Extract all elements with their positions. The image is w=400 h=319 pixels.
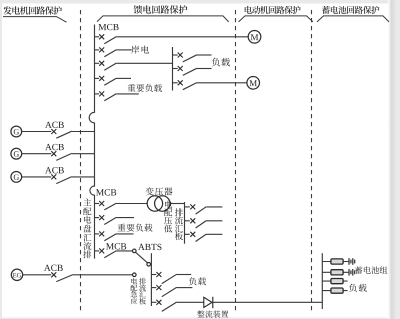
breaker ACB contact (x) G1 (51, 129, 56, 134)
battery bus (vertical) (321, 253, 323, 309)
section title: 电动机回路保护 (245, 6, 301, 14)
fuse on battery branch 2 (331, 270, 343, 275)
wire of emergency load branch 2 (177, 287, 193, 289)
label MCB (transformer feeder) (96, 189, 116, 195)
breaker MCB on feeder branch to motor M1 (94, 34, 116, 43)
breaker contact (x) (99, 215, 104, 220)
wire EG to breaker (23, 274, 51, 276)
wire stub (185, 233, 190, 235)
wire stub (94, 203, 99, 205)
label ACB (generator G2) (45, 144, 64, 150)
wire stub (173, 82, 178, 84)
wire stub of battery load branch 1 (322, 280, 347, 282)
breaker contact (x) (156, 285, 161, 290)
section title: 发电机回路保护 (3, 6, 62, 14)
breaker contact (x) (178, 80, 183, 85)
wire stub (94, 77, 99, 79)
section divider dashed line 2 (235, 10, 237, 313)
bus label: 应急配电板汇流排 (two columns, bottom-to-top) (131, 278, 146, 305)
breaker on emergency load branch 2 (151, 285, 176, 297)
wire of feeder branch (116, 77, 131, 79)
wire stub (185, 220, 190, 222)
label 负载 (emergency) (189, 277, 206, 285)
main switchboard bus (vertical, with two drawout bumps) (89, 25, 94, 259)
wire generator G3 to breaker (22, 176, 52, 178)
fuse on battery branch 1 (331, 259, 343, 264)
rectifier diode D1 (204, 297, 213, 308)
breaker blade (104, 203, 116, 210)
breaker on LV bus branch 3 (185, 232, 207, 242)
battery cells on battery branch 1 (349, 258, 355, 265)
label ABTS (138, 244, 161, 250)
label 蓄电池组 (355, 266, 387, 274)
low-voltage distribution bus (vertical) (184, 202, 186, 244)
wire transformer to LV bus (170, 203, 185, 205)
label 整流装置 (197, 310, 228, 317)
breaker MCB on feeder branch 岸电 (shore power) (94, 47, 116, 56)
breaker blade (162, 287, 177, 296)
wire of sub-bus load branch 1 (197, 54, 212, 56)
label 重要负载 (feeder) (128, 84, 162, 92)
label ACB (generator G1) (45, 122, 64, 128)
breaker contact (x) (190, 232, 195, 237)
wire stub of battery branch 2 (322, 271, 348, 273)
wire breaker to main bus G3 (72, 176, 94, 178)
breaker on important-load branch (middle) (94, 215, 116, 224)
breaker MCB on transformer branch (94, 201, 116, 210)
breaker MCB on feeder branch to distribution sub-bus (94, 61, 116, 70)
breaker MCB on feeder branch (94, 76, 116, 85)
wire stub of battery load branch 2 (322, 290, 347, 292)
breaker on sub-bus load branch 2 (173, 66, 197, 75)
breaker blade (104, 37, 116, 44)
wire of feeder branch 岸电 (shore power) (116, 49, 132, 51)
breaker ACB blade EG (56, 275, 73, 282)
section title: 馈电回路保护 (134, 5, 188, 14)
breaker on emergency load branch 1 (151, 272, 176, 284)
label MCB (top of main bus) (98, 24, 118, 30)
breaker contact (x) (156, 272, 161, 277)
bus label: 低压配电板汇流排 (two columns, bottom-to-top) (164, 201, 183, 241)
breaker contact (x) (99, 76, 104, 81)
breaker on sub-bus load branch 1 (173, 53, 197, 62)
label ACB (generator G3) (45, 167, 64, 173)
ABTS upper fixed contact (circle) (133, 249, 137, 253)
breaker MCB on emergency feed branch (94, 248, 116, 257)
breaker blade (104, 217, 116, 224)
wire stub (151, 301, 156, 303)
brace under battery section title (317, 16, 389, 22)
breaker blade (104, 63, 116, 70)
ABTS blade (136, 253, 147, 263)
breaker blade (104, 94, 116, 101)
wire of emergency load branch 1 (177, 274, 192, 276)
ABTS lower fixed contact (circle) (133, 273, 137, 277)
breaker blade (183, 68, 197, 75)
breaker contact (x) (178, 53, 183, 58)
generator G2 circle (11, 148, 22, 159)
motor M1 circle (248, 31, 261, 44)
breaker on load branch (middle) (94, 231, 116, 240)
wire of LV bus branch 1 (206, 206, 222, 208)
wire breaker to main bus G1 (72, 131, 94, 133)
label ACB (EG) (44, 265, 63, 271)
breaker ACB blade G2 (56, 153, 72, 160)
ABTS pivot contact (circle) (147, 263, 151, 267)
section divider dashed line 3 (311, 10, 313, 313)
label 重要负载 (middle) (118, 224, 153, 232)
wire breaker to main bus G2 (72, 153, 94, 155)
wire breaker to transformer (116, 203, 147, 205)
breaker blade (183, 83, 197, 90)
wire stub (94, 62, 99, 64)
breaker blade (196, 221, 207, 228)
breaker ACB contact (x) EG (51, 272, 56, 277)
breaker blade (104, 234, 116, 241)
breaker contact (x) (99, 47, 104, 52)
emergency generator EG circle (11, 269, 22, 280)
wire stub (94, 233, 99, 235)
motor M2 circle (247, 77, 260, 90)
breaker blade (104, 50, 116, 57)
breaker contact (x) (99, 201, 104, 206)
breaker on sub-bus branch to motor M2 (173, 80, 197, 89)
wire stub (173, 68, 178, 70)
bus label: 主配电盘汇流排 (83, 198, 91, 258)
wire stub (94, 93, 99, 95)
wire of sub-bus load branch 2 (197, 68, 212, 70)
breaker ACB blade G1 (56, 131, 72, 138)
wire stub (173, 54, 178, 56)
wire stub (94, 49, 99, 51)
breaker ACB contact (x) G2 (51, 151, 56, 156)
breaker contact (x) (99, 34, 104, 39)
label MCB (emergency feed) (106, 243, 126, 249)
wire of feeder branch to motor M1 (116, 36, 248, 38)
wire of load branch (middle) (116, 233, 133, 235)
breaker contact (x) (99, 61, 104, 66)
battery cells on battery branch 2 (349, 269, 355, 276)
wire stub (151, 274, 156, 276)
wire stub (185, 206, 190, 208)
wire EG breaker to ABTS lower contact (73, 274, 132, 276)
breaker on rectifier branch (151, 300, 176, 312)
wire generator G1 to breaker (22, 131, 52, 133)
distribution sub-bus (vertical) (172, 47, 174, 91)
label 负载 (sub-bus) (212, 58, 230, 67)
breaker ACB contact (x) G3 (51, 174, 56, 179)
wire of LV bus branch 3 (206, 233, 222, 235)
breaker contact (x) (156, 300, 161, 305)
wire breaker to ABTS upper contact (116, 250, 132, 252)
breaker contact (x) (190, 218, 195, 223)
fuse on battery load branch 1 (331, 279, 343, 284)
wire of LV bus branch 2 (206, 220, 222, 222)
breaker contact (x) (99, 231, 104, 236)
breaker on LV bus branch 1 (185, 204, 207, 214)
brace under feeder section title (97, 16, 229, 22)
wire rectifier to battery bus (213, 301, 322, 303)
wire of feeder branch (important loads) (116, 93, 139, 95)
wire generator G2 to breaker (22, 153, 52, 155)
breaker contact (x) (178, 66, 183, 71)
emergency switchboard bus (vertical) (150, 253, 152, 306)
breaker MCB on feeder branch (important loads) (94, 91, 116, 100)
wire stub (151, 287, 156, 289)
wire stub of battery branch 1 (322, 261, 348, 263)
breaker blade (104, 78, 116, 85)
leader line under generator section title (3, 17, 67, 23)
generator G3 circle (11, 172, 22, 183)
breaker blade (162, 274, 177, 283)
breaker on LV bus branch 2 (185, 218, 207, 228)
generator G1 circle (11, 126, 22, 137)
breaker ACB blade G3 (56, 177, 72, 184)
wire stub (94, 36, 99, 38)
wire emergency bus to rectifier diode (177, 301, 204, 303)
label 变压器 (146, 187, 173, 195)
wire of sub-bus branch to motor M2 (197, 82, 247, 84)
section divider dashed line 1 (80, 10, 82, 313)
breaker contact (x) (190, 204, 195, 209)
breaker contact (x) (99, 91, 104, 96)
wire stub (94, 250, 99, 252)
fuse on battery load branch 2 (331, 288, 343, 293)
breaker blade (183, 55, 197, 62)
breaker blade (104, 251, 116, 258)
wire of feeder branch to distribution sub-bus (116, 62, 172, 64)
breaker blade (196, 207, 207, 214)
breaker contact (x) (99, 248, 104, 253)
wire stub (94, 217, 99, 219)
breaker blade (196, 234, 207, 241)
label 负载 (battery) (349, 284, 367, 292)
transformer T1 (two circles) (147, 196, 170, 211)
section title: 蓄电池回路保护 (322, 6, 379, 14)
breaker blade (162, 302, 177, 311)
wire of important-load branch (middle) (116, 217, 134, 219)
brace under motor section title (239, 16, 314, 22)
label 岸电 (131, 45, 149, 53)
